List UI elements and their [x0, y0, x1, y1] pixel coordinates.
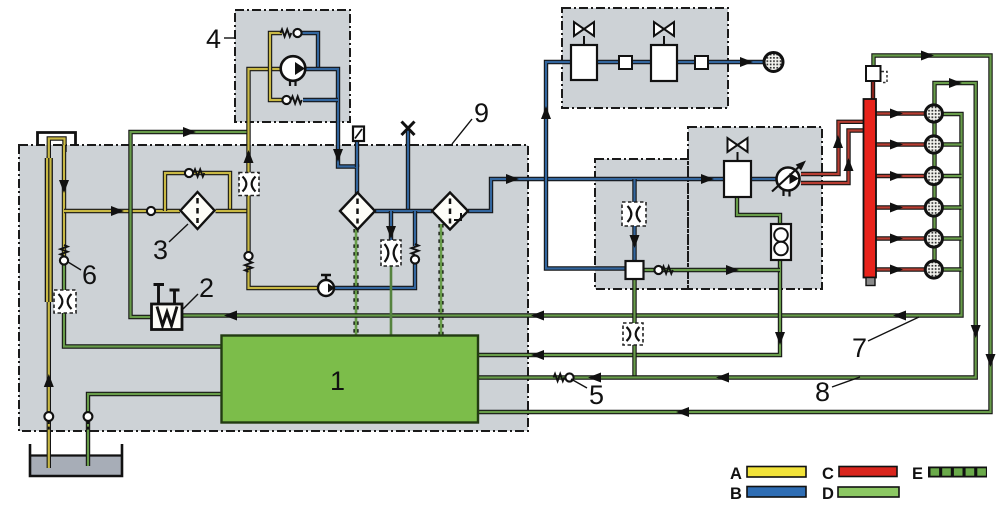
svg-text:6: 6 [82, 260, 97, 290]
svg-text:4: 4 [206, 24, 221, 54]
svg-text:1: 1 [330, 366, 345, 396]
svg-text:9: 9 [474, 98, 489, 128]
svg-text:E: E [912, 465, 923, 483]
svg-text:5: 5 [589, 380, 604, 410]
svg-text:2: 2 [199, 273, 214, 303]
svg-text:8: 8 [815, 377, 830, 407]
svg-text:7: 7 [852, 333, 867, 363]
svg-text:B: B [730, 485, 742, 503]
svg-text:C: C [822, 465, 834, 483]
svg-text:3: 3 [153, 235, 168, 265]
svg-text:A: A [730, 465, 742, 483]
svg-text:D: D [822, 485, 834, 503]
